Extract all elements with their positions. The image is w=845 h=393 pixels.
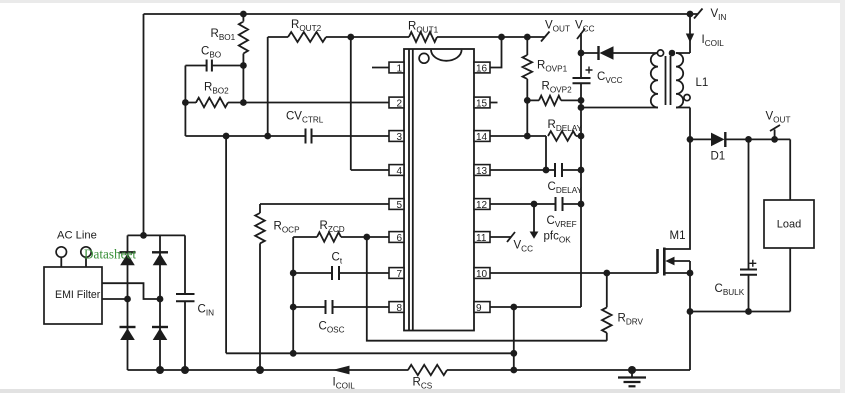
svg-text:5: 5 <box>396 200 402 211</box>
svg-text:12: 12 <box>476 200 488 211</box>
svg-text:ICOIL: ICOIL <box>702 34 725 48</box>
svg-text:9: 9 <box>476 303 482 314</box>
svg-text:4: 4 <box>396 166 402 177</box>
svg-text:CVCTRL: CVCTRL <box>286 111 324 125</box>
svg-text:VOUT: VOUT <box>766 111 791 125</box>
svg-text:RBO1: RBO1 <box>211 28 236 42</box>
svg-text:2: 2 <box>396 98 402 109</box>
svg-text:VCC: VCC <box>514 240 534 254</box>
svg-text:RZCD: RZCD <box>320 220 345 234</box>
svg-text:ROVP1: ROVP1 <box>537 60 568 74</box>
svg-text:6: 6 <box>396 233 402 244</box>
svg-text:L1: L1 <box>696 77 709 89</box>
svg-text:ROUT1: ROUT1 <box>408 21 439 35</box>
svg-text:Ct: Ct <box>332 252 343 266</box>
svg-text:pfcOK: pfcOK <box>544 231 572 245</box>
svg-text:CBULK: CBULK <box>715 283 745 297</box>
svg-text:CDELAY: CDELAY <box>548 181 583 195</box>
svg-text:VCC: VCC <box>575 20 595 34</box>
svg-text:D1: D1 <box>711 151 726 163</box>
svg-text:16: 16 <box>476 63 488 74</box>
svg-text:ROUT2: ROUT2 <box>291 19 322 33</box>
svg-text:8: 8 <box>396 303 402 314</box>
svg-text:VIN: VIN <box>711 8 727 22</box>
svg-text:CVCC: CVCC <box>597 71 623 85</box>
svg-text:1: 1 <box>396 63 402 74</box>
svg-text:Load: Load <box>777 219 801 231</box>
svg-text:RDRV: RDRV <box>618 313 644 327</box>
svg-text:AC Line: AC Line <box>57 230 97 242</box>
svg-text:ROCP: ROCP <box>274 221 301 235</box>
svg-text:3: 3 <box>396 132 402 143</box>
svg-text:7: 7 <box>396 269 402 280</box>
svg-text:RDELAY: RDELAY <box>548 119 583 133</box>
svg-text:15: 15 <box>476 98 488 109</box>
svg-text:ROVP2: ROVP2 <box>542 81 573 95</box>
svg-text:COSC: COSC <box>319 321 345 335</box>
svg-text:10: 10 <box>476 269 488 280</box>
svg-text:13: 13 <box>476 166 488 177</box>
svg-text:EMI Filter: EMI Filter <box>55 289 101 301</box>
svg-text:11: 11 <box>476 233 487 244</box>
svg-text:14: 14 <box>476 132 488 143</box>
svg-text:CBO: CBO <box>201 46 221 60</box>
svg-text:Datasheet: Datasheet <box>84 247 136 262</box>
svg-text:CVREF: CVREF <box>547 215 577 229</box>
svg-text:M1: M1 <box>670 230 686 242</box>
svg-text:CIN: CIN <box>198 304 215 318</box>
svg-text:RBO2: RBO2 <box>204 82 229 96</box>
